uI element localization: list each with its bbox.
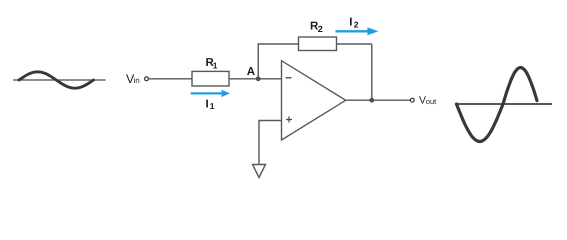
svg-text:A: A <box>247 66 255 78</box>
svg-text:in: in <box>134 76 140 85</box>
svg-text:I: I <box>349 17 352 29</box>
svg-text:1: 1 <box>213 61 218 71</box>
svg-text:1: 1 <box>210 101 215 111</box>
svg-text:out: out <box>426 97 437 106</box>
svg-text:I: I <box>206 99 209 111</box>
svg-text:2: 2 <box>354 20 359 30</box>
svg-text:2: 2 <box>318 24 323 34</box>
